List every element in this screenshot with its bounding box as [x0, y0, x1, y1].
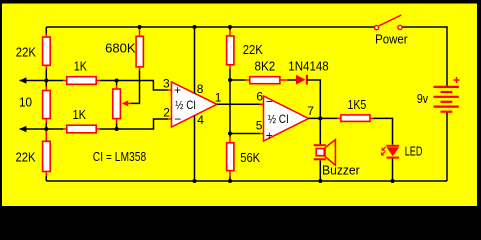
wire top rail right of switch: [403, 27, 447, 87]
svg-text:10: 10: [19, 94, 32, 109]
wire upper interconnect: [20, 80, 64, 82]
wire pin1 to pin6: [217, 103, 260, 105]
pin 8 wire: [193, 25, 197, 29]
svg-text:8K2: 8K2: [255, 59, 276, 74]
diode D1 1N4148: [296, 75, 306, 85]
resistor R6 680K: [138, 25, 142, 29]
svg-text:−: −: [266, 95, 273, 109]
svg-text:LED: LED: [405, 144, 423, 159]
wire bottom rail: [46, 180, 447, 182]
svg-text:56K: 56K: [240, 150, 260, 165]
svg-text:+: +: [174, 83, 181, 97]
op-amp U1a: [172, 82, 217, 127]
svg-text:7: 7: [307, 104, 314, 118]
node arrow out A: [19, 77, 26, 83]
wire pin 7 output: [309, 117, 338, 119]
resistor R10 1K5: [341, 115, 370, 122]
wire diode to output node: [307, 80, 320, 118]
svg-text:680K: 680K: [105, 41, 136, 56]
svg-text:1K: 1K: [74, 58, 87, 73]
svg-text:4: 4: [197, 113, 204, 127]
LED D2: [387, 145, 400, 147]
svg-text:+: +: [266, 129, 273, 143]
node arrow out B: [19, 126, 26, 132]
op-amp U1b: [264, 96, 309, 141]
svg-text:1K5: 1K5: [348, 97, 367, 112]
svg-text:Power: Power: [375, 32, 408, 47]
svg-text:1N4148: 1N4148: [288, 59, 328, 74]
resistor R5 22K: [43, 141, 51, 171]
LED light arrows: [382, 147, 386, 151]
wire left column bottom: [45, 131, 47, 141]
resistor R9 56K: [229, 134, 231, 137]
resistor R7 22K middle: [228, 25, 232, 29]
svg-text:22K: 22K: [16, 44, 36, 59]
svg-text:8: 8: [197, 82, 204, 96]
svg-text:3: 3: [163, 76, 170, 90]
svg-text:CI = LM358: CI = LM358: [93, 149, 146, 164]
wire wiper to 680K: [131, 71, 140, 104]
resistor R4 1K: [67, 125, 96, 133]
svg-text:−: −: [174, 112, 181, 126]
wire: [45, 66, 47, 69]
wire top rail: [46, 26, 374, 28]
battery B1 9v: [434, 86, 459, 88]
wire lower interconnect: [20, 128, 64, 130]
svg-text:9v: 9v: [417, 91, 429, 106]
node junction: [44, 79, 48, 83]
svg-text:22K: 22K: [243, 42, 263, 57]
wire left column top: [45, 27, 47, 34]
resistor R3 10: [43, 91, 51, 119]
wire battery bottom to rail: [446, 112, 448, 181]
svg-text:6: 6: [256, 89, 263, 103]
svg-text:½ CI: ½ CI: [268, 112, 289, 126]
svg-text:2: 2: [163, 106, 170, 120]
svg-text:5: 5: [256, 119, 263, 133]
resistor R1 22K: [43, 37, 51, 65]
wire: [45, 81, 47, 87]
svg-text:1K: 1K: [73, 107, 87, 122]
wire: [100, 81, 168, 91]
pin 5 wire: [228, 132, 232, 136]
resistor R8 8K2: [230, 79, 246, 81]
battery plus: [454, 77, 460, 83]
svg-text:22K: 22K: [16, 150, 36, 165]
svg-text:Buzzer: Buzzer: [322, 162, 360, 177]
switch S1 Power: [379, 15, 401, 26]
wiper arrow: [127, 102, 132, 104]
buzzer BZ1: [319, 118, 321, 144]
resistor R2 1K: [67, 77, 96, 85]
svg-text:1: 1: [215, 91, 222, 105]
pin 4 wire: [194, 116, 196, 181]
potentiometer P1: [116, 81, 118, 86]
svg-text:½ CI: ½ CI: [175, 98, 196, 112]
